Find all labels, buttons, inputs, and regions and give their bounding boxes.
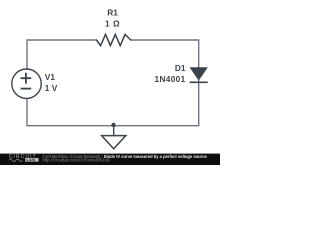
footer bar <box>0 154 220 165</box>
wire top-left horizontal segment <box>27 39 97 41</box>
svg-text:http://circuitlab.com/c/7fnxkm: http://circuitlab.com/c/7fnxkm4b54u5/ <box>43 158 111 163</box>
svg-text:1 V: 1 V <box>45 83 58 93</box>
V1 minus sign <box>21 88 32 90</box>
junction node dot <box>111 123 115 127</box>
ground stub wire <box>113 126 115 136</box>
footer logo LAB box <box>25 158 38 162</box>
voltage source V1 <box>12 69 41 98</box>
svg-text:D1: D1 <box>175 63 186 73</box>
wire bottom horizontal segment <box>26 125 199 127</box>
svg-text:1N4001: 1N4001 <box>155 74 186 84</box>
V1 plus sign <box>21 73 32 84</box>
svg-text:V1: V1 <box>45 72 56 82</box>
resistor R1 <box>97 34 131 45</box>
wire left vertical upper segment <box>26 39 28 69</box>
diode D1 triangle (anode) <box>190 68 207 80</box>
svg-text:1 Ω: 1 Ω <box>105 19 120 29</box>
ground symbol <box>102 136 126 149</box>
footer logo waveform <box>9 159 23 162</box>
diode D1 cathode bar <box>190 81 208 83</box>
wire top-right horizontal segment <box>131 39 199 41</box>
svg-text:LAB: LAB <box>27 158 36 162</box>
wire right vertical segment <box>198 39 200 125</box>
wire left vertical lower segment <box>26 98 28 125</box>
svg-text:R1: R1 <box>107 8 118 18</box>
